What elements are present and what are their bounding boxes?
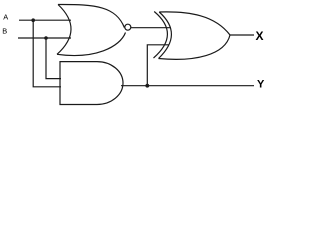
junction node on wire B (44, 36, 48, 40)
wire B branch vertical (46, 38, 61, 79)
nor-gate U1 top curve (58, 4, 124, 27)
wire input A (19, 19, 71, 21)
junction node on wire A (31, 18, 35, 22)
and-gate U2 body (60, 62, 123, 105)
svg-text:A: A (3, 12, 8, 21)
wire XOR output to X (230, 34, 254, 36)
nor-gate U1 output bubble (125, 24, 131, 30)
wire NOR output to XOR input (131, 27, 171, 29)
wire AND output to Y (121, 85, 254, 87)
svg-text:X: X (256, 29, 264, 43)
nor-gate U1 left arc (57, 5, 71, 55)
svg-text:B: B (2, 26, 7, 35)
wire input B (18, 37, 71, 39)
xor-gate U3 input arc (154, 12, 168, 59)
xor-gate U3 top curve (159, 12, 230, 35)
xor-gate U3 body left arc (159, 12, 172, 59)
nor-gate U1 bottom curve (57, 33, 126, 56)
wire A branch vertical (33, 20, 61, 87)
junction node on AND output wire (145, 84, 149, 88)
xor-gate U3 bottom curve (159, 35, 231, 59)
svg-text:Y: Y (257, 79, 265, 91)
wire AND output branch up to XOR (147, 45, 168, 86)
